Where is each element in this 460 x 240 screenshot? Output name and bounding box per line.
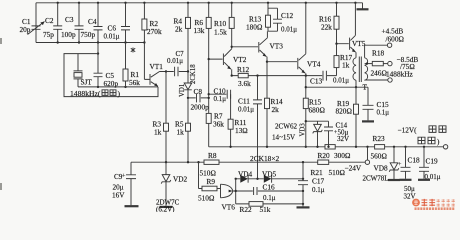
svg-text:R23: R23 [373,134,386,143]
wire: -24V drop [367,147,369,160]
ground (top right) [357,8,369,10]
svg-text:R9: R9 [207,177,216,186]
svg-text:1.5k: 1.5k [214,28,227,37]
svg-text:C16: C16 [263,182,276,191]
resistor R3 [153,72,169,163]
capacitor C4 [81,3,103,43]
svg-text:VD5: VD5 [262,170,277,179]
svg-text:2k: 2k [175,25,183,34]
svg-text:C13: C13 [310,77,323,86]
svg-text:C17: C17 [312,177,325,186]
svg-text:(6.2V): (6.2V) [156,206,175,213]
svg-text:0.1μ: 0.1μ [377,109,390,117]
wire: zener top line [306,120,329,122]
svg-text:2000p: 2000p [191,103,210,112]
resistor R21 [311,160,346,177]
svg-text:R8: R8 [208,151,217,160]
svg-text:R12: R12 [237,65,250,74]
svg-text:/600Ω: /600Ω [386,35,405,44]
capacitor C1 (trimmer) [20,17,45,35]
mark: asterisk [131,48,135,53]
svg-text:C4: C4 [88,17,97,26]
capacitor C11 [238,76,262,179]
svg-text:R22: R22 [240,205,253,212]
resistor R13 [246,3,271,32]
svg-text:C11: C11 [238,97,250,106]
watermark logo [412,199,455,210]
svg-text:R18: R18 [372,49,385,58]
svg-text:75p: 75p [43,30,54,39]
resistor R16 [319,3,339,44]
wire: C4 to crystal node [97,43,99,54]
svg-text:VD8: VD8 [374,164,389,173]
transistor VT5 [337,3,366,58]
svg-text:R20: R20 [318,151,331,160]
transformer T [353,57,368,92]
svg-text:36k: 36k [213,120,224,129]
svg-text:510Ω: 510Ω [329,168,346,177]
capacitor C5 [94,54,119,88]
wire: crystal bottom line [78,86,158,88]
capacitor C18 [398,147,420,201]
svg-text:750p: 750p [81,30,96,39]
resistor R15 chain [303,76,325,122]
scan edge marks [0,38,2,44]
resistor R7 [206,112,224,147]
resistor R14 [265,62,284,147]
terminal -8.5dB [388,61,392,65]
wire: diode line y=178.8 [236,178,303,180]
wire: primary bottom node [355,86,357,88]
top ground rail [36,2,363,9]
zener VD8 2CW78L [363,147,401,183]
resistor R17 [334,44,353,76]
capacitor C6 [104,3,131,43]
svg-text:SJT: SJT [81,78,93,87]
capacitor C9 [112,162,139,206]
resistor R20 [318,145,351,160]
resistor R6 / node line [194,3,212,114]
capacitor C8 [188,87,209,112]
wire: secondary top to output [365,45,388,58]
svg-text:C3: C3 [65,15,74,24]
diode VD4 [238,170,253,183]
svg-text:32V: 32V [337,135,349,143]
svg-text:20p: 20p [20,25,31,34]
svg-text:560Ω: 560Ω [371,152,388,161]
svg-text:VT5: VT5 [352,39,366,48]
svg-text:270k: 270k [147,27,162,36]
svg-text:3.6k: 3.6k [238,79,251,88]
svg-text:2k: 2k [272,105,280,114]
svg-text:100p: 100p [61,30,76,39]
svg-text:2CK18×2: 2CK18×2 [250,154,280,163]
wire: secondary bottom to terminal [365,79,388,81]
resistor R1 [123,43,140,88]
svg-text:0.01μ: 0.01μ [425,173,441,181]
svg-text:VD4: VD4 [238,170,253,179]
resistor R18 [365,49,388,78]
svg-text:0.01μ: 0.01μ [238,106,254,114]
svg-text:0.01μ: 0.01μ [281,26,297,34]
svg-text:1488kHz(: 1488kHz( [70,89,101,98]
svg-text:2CW78L: 2CW78L [363,175,389,183]
svg-text:0.01μ: 0.01μ [104,33,120,41]
capacitor C16 loop [233,179,304,204]
capacitor C2 [43,3,62,43]
resistor R9 [198,162,220,202]
diode VD5 [262,170,277,183]
diode VD1 2CK18 [179,64,197,98]
capacitor C14 [324,121,349,147]
zener VD2 2DW7C [156,162,188,213]
svg-text:22k: 22k [321,23,332,32]
capacitor C15 [356,87,389,121]
wire: R15 line to rail [305,121,307,147]
svg-text:C2: C2 [45,16,54,25]
transistor VT1 [150,62,167,86]
svg-text:1488kHz: 1488kHz [386,70,414,79]
capacitor C17 [297,162,325,207]
label: 1488kHz crystal [70,89,121,98]
resistor R2 [142,3,162,80]
wire: input bus y=42.5 [36,3,146,44]
capacitor C13 [310,71,349,86]
svg-text:180Ω: 180Ω [246,23,263,32]
svg-text:VT1: VT1 [150,62,164,71]
svg-text:20μ: 20μ [113,184,124,192]
resistor R10 [214,3,234,47]
terminal +4.5dB [387,43,391,47]
svg-text:0.1μ: 0.1μ [214,95,227,103]
svg-text:32V: 32V [404,193,416,201]
svg-text:1k: 1k [342,61,350,70]
resistor R22 [236,202,304,214]
wire: emitter rail with R12, C13 [232,75,337,77]
svg-text:VT3: VT3 [270,42,284,51]
capacitor C12 [268,8,297,33]
svg-text:16V: 16V [112,192,125,200]
svg-text:C12: C12 [281,11,294,20]
svg-text:13Ω: 13Ω [235,126,248,135]
svg-text:−24V: −24V [345,164,362,173]
svg-text:1k: 1k [177,128,185,137]
crystal SJT [74,54,93,87]
svg-text:0.01μ: 0.01μ [167,57,183,65]
terminal -12V supply [443,145,447,149]
svg-text:−12V(: −12V( [398,126,418,135]
svg-text:2CK18: 2CK18 [190,64,197,84]
svg-text:C8: C8 [194,87,203,96]
svg-text:1k: 1k [154,128,162,137]
svg-text:VT4: VT4 [307,60,321,69]
svg-text:14~15V: 14~15V [272,133,296,141]
svg-text:0.1μ: 0.1μ [263,194,276,202]
capacitor C7 [166,50,188,76]
svg-text:C19: C19 [426,157,439,166]
svg-text:300Ω: 300Ω [334,151,351,160]
resistor R8 [200,151,220,178]
svg-text:51k: 51k [260,205,271,212]
svg-text:246Ω: 246Ω [371,69,388,78]
svg-text:VT2: VT2 [233,55,247,64]
transistor VT2 [209,47,247,76]
resistor R4 [174,3,191,72]
resistor R23 [371,134,388,161]
resistor R19 [336,87,359,147]
svg-text:0.01μ: 0.01μ [333,77,349,85]
svg-text:13k: 13k [194,26,205,35]
transistor VT3 [259,31,283,62]
svg-text:680Ω: 680Ω [309,106,326,115]
transistor VT4 [298,3,321,76]
svg-text:C6: C6 [108,24,117,33]
zener VD3 [300,121,323,147]
resistor R12 [237,65,251,88]
wire: crystal unit loop [64,54,158,97]
supply rail A y=146.8 [209,146,444,148]
transistor VT6 [221,184,236,211]
wire: VT3 emitter to VT4 base [267,61,297,63]
svg-text:510Ω: 510Ω [198,194,215,203]
svg-text:VT6: VT6 [222,203,236,212]
resistor R5 [175,98,191,162]
svg-text:620p: 620p [104,79,119,88]
svg-text:2CW62: 2CW62 [275,123,298,131]
capacitor C19 [418,147,441,181]
capacitor C3 [61,3,84,43]
svg-text:820Ω: 820Ω [336,107,353,116]
svg-text:C9: C9 [114,173,123,181]
wire: VT2 collector to VT3 base [232,46,258,48]
svg-text:C18: C18 [408,156,421,165]
svg-text:0.1μ: 0.1μ [312,186,325,194]
rail B y=162.2 with R8, R21 [131,161,365,163]
capacitor C10 [209,87,231,104]
svg-text:VD1: VD1 [179,84,186,97]
svg-text:56k: 56k [129,78,140,87]
resistor R11 [228,94,248,147]
svg-text:VD2: VD2 [173,175,188,184]
